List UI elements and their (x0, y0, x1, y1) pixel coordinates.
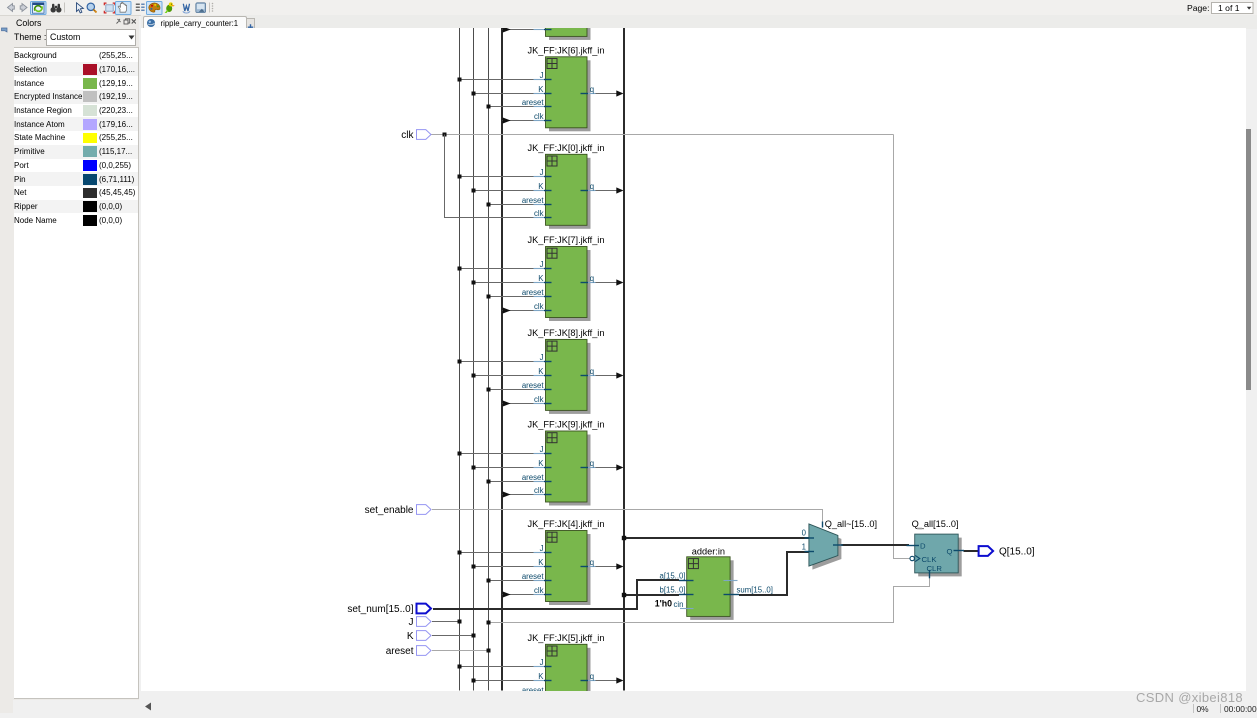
svg-text:K: K (538, 85, 544, 94)
wire areset net to JK[4] areset pin (487, 579, 534, 583)
svg-text:J: J (540, 658, 544, 667)
toolbar separator (209, 3, 211, 13)
svg-text:K: K (538, 274, 544, 283)
svg-text:D: D (920, 542, 926, 551)
flip-flop instance JK_FF:JK[8].jkff_in (522, 328, 605, 414)
input port clk (401, 130, 431, 141)
wire clk ripper arrow to JK[5] clk pin (502, 704, 534, 710)
wire JK[5] q output to Q_all bus with ripper arrow (596, 677, 624, 683)
wire areset net to JK[5] areset pin (487, 693, 534, 697)
input port J (409, 617, 432, 628)
wire JK[0] q output to Q_all bus with ripper arrow (596, 187, 624, 193)
svg-text:J: J (540, 445, 544, 454)
svg-text:1 of 1: 1 of 1 (1218, 3, 1240, 13)
svg-text:cin: cin (674, 600, 684, 609)
svg-text:clk: clk (534, 302, 544, 311)
svg-text:clk: clk (534, 112, 544, 121)
svg-text:1'h0: 1'h0 (655, 599, 672, 609)
wire areset net to JK[8] areset pin (487, 388, 534, 392)
icon find binoculars (51, 4, 62, 13)
wire clk ripper arrow to JK[4] clk pin (502, 591, 534, 597)
svg-text:JK_FF:JK[0].jkff_in: JK_FF:JK[0].jkff_in (528, 143, 605, 153)
svg-text:Q_all[15..0]: Q_all[15..0] (912, 519, 959, 529)
wire J net to JK[8] J pin (458, 360, 534, 364)
svg-text:CLK: CLK (922, 555, 938, 564)
svg-text:set_num[15..0]: set_num[15..0] (347, 604, 413, 615)
svg-text:areset: areset (522, 473, 545, 482)
svg-text:J: J (540, 544, 544, 553)
wire areset net to JK[6] areset pin (487, 105, 534, 109)
svg-text:q: q (590, 672, 594, 681)
wire areset net to JK[0] areset pin (487, 203, 534, 207)
svg-text:Q_all~[15..0]: Q_all~[15..0] (825, 519, 877, 529)
bus Q_all to mux input 0 (622, 536, 810, 540)
collapsed side tab strip (0, 16, 13, 713)
svg-text:JK_FF:JK[5].jkff_in: JK_FF:JK[5].jkff_in (528, 633, 605, 643)
svg-text:J: J (409, 617, 414, 628)
flip-flop instance JK_FF:JK[0].jkff_in (522, 143, 605, 229)
bus mux output to Q_all register D (838, 544, 909, 546)
svg-text:clk: clk (401, 130, 414, 141)
svg-text:K: K (538, 182, 544, 191)
wire clk ripper arrow to JK[8] clk pin (502, 400, 534, 406)
wire areset net to JK[7] areset pin (487, 295, 534, 299)
bottom status area (141, 691, 1257, 714)
svg-text:areset: areset (522, 98, 545, 107)
bus Q_all register Q to output port (964, 550, 979, 552)
output port Q[15..0] (979, 546, 1035, 557)
svg-text:K: K (538, 558, 544, 567)
svg-text:q: q (590, 459, 594, 468)
wire K net to JK[9] K pin (472, 466, 534, 470)
svg-text:JK_FF:JK[6].jkff_in: JK_FF:JK[6].jkff_in (528, 45, 605, 55)
adder instance adder:in (659, 547, 772, 620)
svg-text:adder:in: adder:in (692, 547, 725, 557)
svg-text:areset: areset (522, 196, 545, 205)
icon pan hand (checked button) (116, 2, 132, 15)
bus Q_all to adder b input (622, 593, 679, 597)
icon forward (20, 4, 27, 12)
svg-text:K: K (407, 631, 414, 642)
bus clk-feedback vertical (thick) (501, 28, 503, 691)
svg-text:sum[15..0]: sum[15..0] (737, 586, 773, 595)
svg-text:q: q (590, 274, 594, 283)
wire J net to JK[9] J pin (458, 452, 534, 456)
svg-text:Q[15..0]: Q[15..0] (999, 546, 1035, 557)
svg-text:Page:: Page: (1187, 3, 1209, 13)
wire clk ripper arrow to top partial FF clk pin (502, 26, 534, 32)
svg-text:clk: clk (534, 586, 544, 595)
icon zoom (87, 3, 97, 13)
icon refresh (checked button) (31, 2, 47, 15)
toolbar drag handle dots (212, 3, 214, 12)
svg-text:q: q (590, 85, 594, 94)
flip-flop instance JK_FF:JK[4].jkff_in (522, 519, 605, 605)
net areset vertical distribution wire (488, 28, 490, 691)
svg-text:areset: areset (522, 288, 545, 297)
wire J net to JK[7] J pin (458, 267, 534, 271)
icon bird (165, 2, 175, 13)
document tab bar (141, 15, 1257, 30)
svg-text:Q: Q (947, 547, 953, 556)
input port set_num[15..0] (347, 604, 431, 615)
svg-text:K: K (538, 672, 544, 681)
wire set_enable to mux select (432, 510, 823, 525)
wire areset port to areset net (432, 649, 491, 653)
wire J net to JK[4] J pin (458, 551, 534, 555)
wire clk ripper arrow to JK[7] clk pin (502, 307, 534, 313)
bus adder sum to mux input 1 (739, 552, 810, 595)
svg-text:b[15..0]: b[15..0] (659, 586, 685, 595)
input port set_enable (365, 505, 431, 516)
svg-text:areset: areset (522, 572, 545, 581)
application toolbar (0, 0, 1257, 16)
icon export image (196, 3, 206, 13)
wire JK[4] q output to Q_all bus with ripper arrow (596, 563, 624, 569)
svg-text:J: J (540, 71, 544, 80)
register Q_all[15..0] (907, 519, 965, 579)
wire J net to JK[5] J pin (458, 665, 534, 669)
icon hierarchy list (136, 4, 145, 10)
svg-text:K: K (538, 459, 544, 468)
wire K net to JK[4] K pin (472, 565, 534, 569)
svg-text:q: q (590, 558, 594, 567)
icon zoom selection (104, 3, 115, 13)
wire areset branch to Q_all register CLR (487, 578, 930, 625)
wire J port to J net (432, 620, 462, 624)
wire K port to K net (432, 634, 476, 638)
flip-flop instance JK_FF:JK[6].jkff_in (522, 45, 605, 131)
svg-text:JK_FF:JK[9].jkff_in: JK_FF:JK[9].jkff_in (528, 420, 605, 430)
bus Q_all vertical (thick) (623, 28, 625, 691)
wire JK[6] q output to Q_all bus with ripper arrow (596, 90, 624, 96)
svg-text:JK_FF:JK[8].jkff_in: JK_FF:JK[8].jkff_in (528, 328, 605, 338)
wire JK[8] q output to Q_all bus with ripper arrow (596, 372, 624, 378)
svg-text:areset: areset (522, 381, 545, 390)
svg-text:clk: clk (534, 395, 544, 404)
svg-text:q: q (590, 367, 594, 376)
wire clk down to Q_all register CLK (894, 135, 910, 559)
svg-text:set_enable: set_enable (365, 505, 414, 516)
svg-text:J: J (540, 353, 544, 362)
svg-text:clk: clk (534, 486, 544, 495)
svg-text:K: K (538, 367, 544, 376)
net J vertical distribution wire (459, 28, 461, 691)
wire K net to JK[6] K pin (472, 92, 534, 96)
wire clk port net to JK[0] clk pin (445, 135, 534, 218)
wire K net to JK[8] K pin (472, 374, 534, 378)
net K vertical distribution wire (473, 28, 475, 691)
wire JK[7] q output to Q_all bus with ripper arrow (596, 279, 624, 285)
svg-text:J: J (540, 260, 544, 269)
junction clk net at JK[0] drop (443, 133, 447, 137)
wire clk horizontal net (431, 134, 894, 136)
Colors settings panel (13, 16, 139, 700)
input port areset (386, 646, 431, 657)
svg-text:JK_FF:JK[7].jkff_in: JK_FF:JK[7].jkff_in (528, 235, 605, 245)
icon web W (183, 4, 190, 13)
svg-text:JK_FF:JK[4].jkff_in: JK_FF:JK[4].jkff_in (528, 519, 605, 529)
flip-flop instance JK_FF:JK[5].jkff_in (522, 633, 605, 718)
input port K (407, 631, 431, 642)
flip-flop instance JK_FF:JK[7].jkff_in (522, 235, 605, 321)
wire K net to JK[5] K pin (472, 679, 534, 683)
flip-flop instance partially scrolled off top (534, 25, 591, 40)
svg-text:a[15..0]: a[15..0] (659, 572, 685, 581)
icon back (8, 4, 15, 12)
wire K net to JK[7] K pin (472, 281, 534, 285)
wire JK[9] q output to Q_all bus with ripper arrow (596, 464, 624, 470)
svg-text:areset: areset (386, 646, 414, 657)
icon color palette (checked button) (147, 2, 163, 15)
svg-text:1: 1 (802, 543, 806, 552)
svg-text:0: 0 (802, 528, 807, 537)
flip-flop instance JK_FF:JK[9].jkff_in (522, 420, 605, 506)
svg-text:J: J (540, 168, 544, 177)
svg-text:q: q (590, 182, 594, 191)
wire clk ripper arrow to JK[6] clk pin (502, 117, 534, 123)
icon select cursor (77, 3, 84, 13)
wire J net to JK[0] J pin (458, 175, 534, 179)
bus set_num to adder a input (433, 580, 679, 609)
mux Q_all~[15..0] (802, 519, 877, 570)
wire areset net to JK[9] areset pin (487, 480, 534, 484)
vertical scrollbar (1246, 29, 1257, 691)
wire clk ripper arrow to JK[9] clk pin (502, 491, 534, 497)
wire K net to JK[0] K pin (472, 189, 534, 193)
wire J net to JK[6] J pin (458, 78, 534, 82)
toolbar separator (64, 3, 66, 13)
svg-text:clk: clk (534, 209, 544, 218)
